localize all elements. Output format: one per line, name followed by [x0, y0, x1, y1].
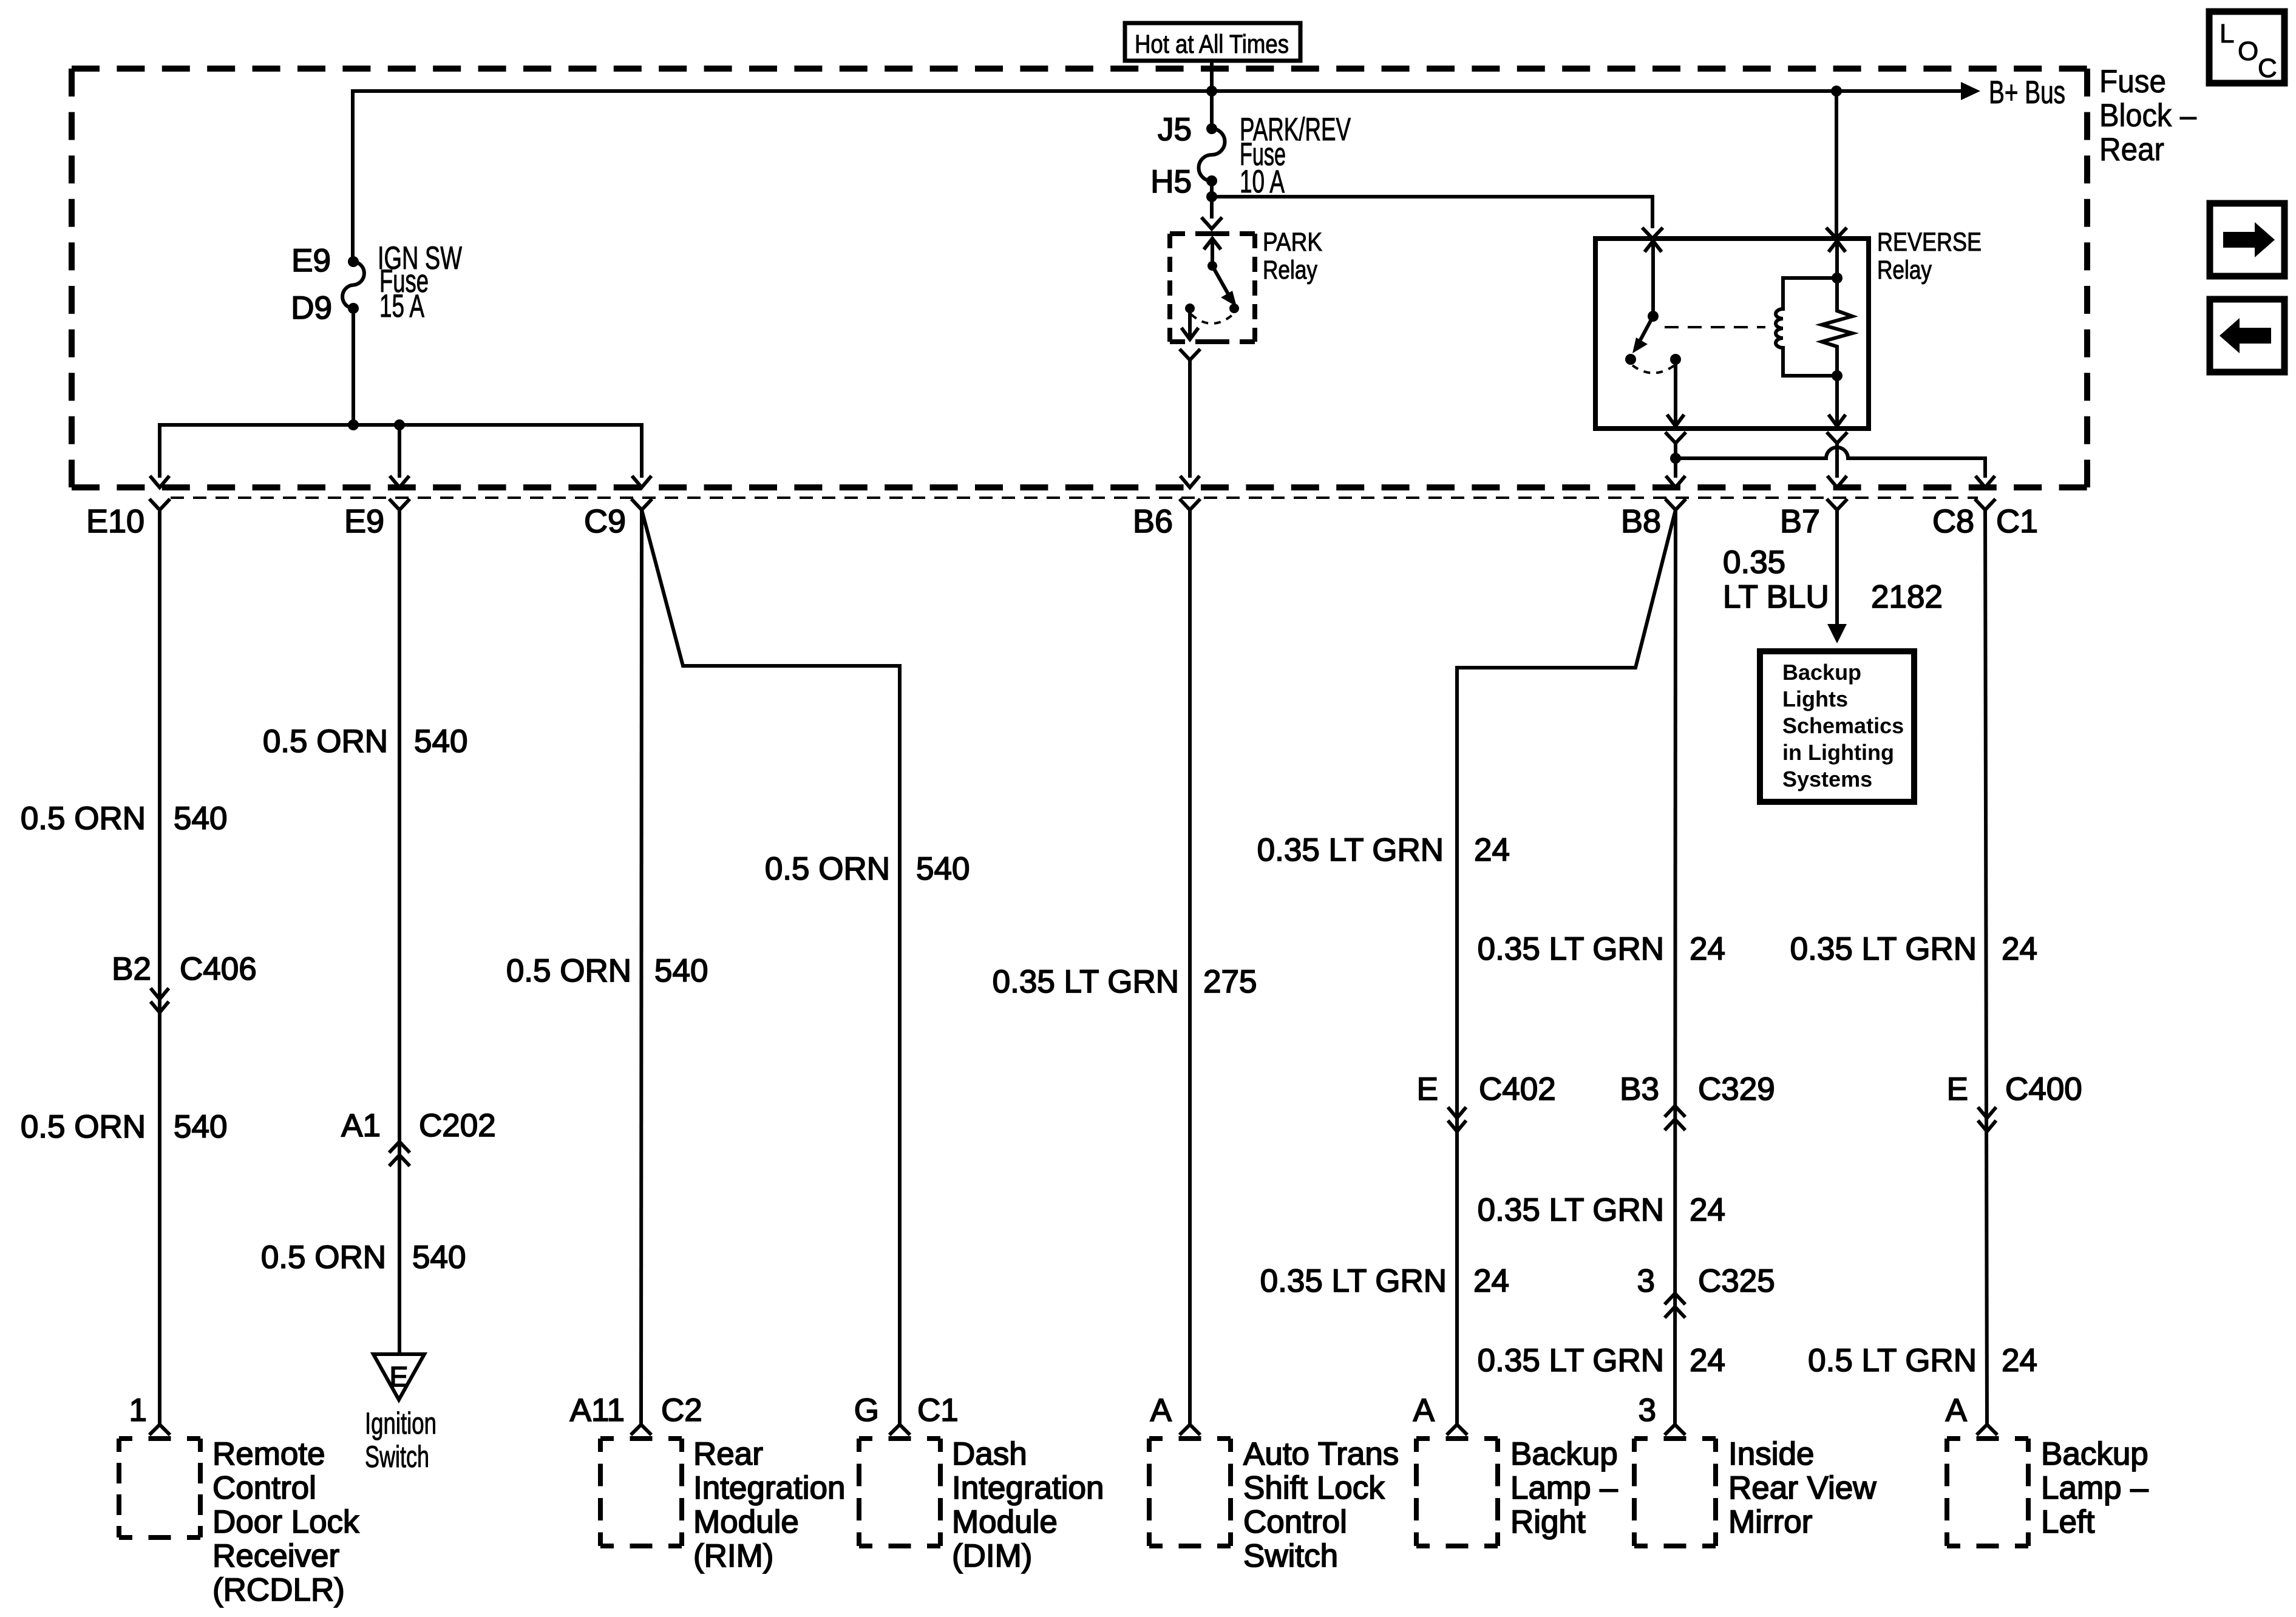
svg-text:0.5 ORN: 0.5 ORN: [21, 801, 146, 836]
svg-text:24: 24: [1690, 1343, 1725, 1378]
svg-text:540: 540: [916, 851, 970, 887]
connector chevron row E10: [149, 499, 170, 510]
node B+ Bus arrow: [1961, 75, 2065, 110]
relay PARK (dashed box): [1170, 231, 1255, 236]
svg-text:C400: C400: [2005, 1071, 2082, 1107]
svg-text:10 A: 10 A: [1240, 164, 1285, 200]
wire bus to PARK/REV fuse: [1210, 91, 1214, 129]
wire IGN SW fuse to lower bus: [352, 308, 355, 427]
svg-text:O: O: [2238, 36, 2258, 66]
svg-text:C9: C9: [584, 503, 626, 540]
svg-text:0.5 ORN: 0.5 ORN: [21, 1109, 146, 1145]
svg-text:3: 3: [1639, 1392, 1656, 1428]
svg-text:A1: A1: [341, 1108, 381, 1144]
svg-text:C325: C325: [1698, 1263, 1775, 1299]
svg-text:Rear: Rear: [2099, 132, 2164, 168]
junction dot fuse output: [1206, 191, 1217, 202]
svg-text:C329: C329: [1698, 1071, 1775, 1107]
relay REVERSE (solid box): [1595, 239, 1869, 429]
wire B8 branch to backup lamp right: [1457, 510, 1676, 1425]
connector chevron row C8/C1: [1975, 499, 1995, 510]
svg-text:Switch: Switch: [365, 1440, 429, 1474]
connector chevron below REVERSE relay left: [1665, 432, 1686, 443]
wire B7 drop: [1835, 443, 1839, 478]
connector chevron into REVERSE relay right: [1826, 228, 1847, 239]
wire REVERSE relay feed from bus: [1835, 91, 1838, 239]
svg-text:PARK: PARK: [1263, 228, 1322, 257]
svg-text:REVERSE: REVERSE: [1877, 228, 1982, 257]
svg-text:0.5 ORN: 0.5 ORN: [506, 953, 631, 989]
wire jumper to C8 with hop over B7: [1676, 447, 1985, 478]
wire lower distribution bus: [160, 425, 642, 427]
connector caret into mirror: [1665, 1425, 1685, 1435]
REVERSE relay coil return wire with down arrow: [1835, 376, 1839, 427]
svg-text:A: A: [1946, 1392, 1968, 1428]
svg-text:275: 275: [1203, 964, 1257, 1000]
wire from Hot at All Times to B+ bus: [1210, 61, 1214, 91]
svg-text:E9: E9: [344, 503, 384, 540]
border arrow C9: [632, 476, 651, 487]
connector chevron below PARK relay: [1180, 349, 1200, 360]
svg-text:1: 1: [129, 1392, 147, 1428]
svg-text:0.5 ORN: 0.5 ORN: [263, 724, 388, 759]
svg-text:24: 24: [1474, 832, 1510, 868]
svg-text:E9: E9: [291, 243, 331, 279]
wire B8 to inside rear view mirror: [1675, 510, 1676, 1425]
svg-text:B+ Bus: B+ Bus: [1989, 75, 2065, 110]
svg-text:540: 540: [414, 724, 467, 759]
svg-text:A11: A11: [570, 1392, 625, 1428]
connector caret into RCDLR: [149, 1425, 170, 1435]
svg-text:C402: C402: [1479, 1071, 1556, 1107]
svg-text:E: E: [1417, 1071, 1438, 1107]
component Backup Lamp Right (dashed box): [1416, 1436, 1498, 1441]
resistor of REVERSE relay: [1822, 278, 1852, 376]
node right arrow legend box: [2210, 203, 2284, 276]
coil of REVERSE relay: [1776, 278, 1837, 376]
component Backup Lamp Left (dashed box): [1947, 1436, 2028, 1441]
connector chevron row B8: [1665, 499, 1686, 510]
connector caret into backup lamp left: [1977, 1425, 1997, 1435]
svg-text:G: G: [854, 1392, 879, 1428]
connector chevron row B6: [1180, 499, 1200, 510]
connector chevron row B7: [1827, 499, 1847, 510]
PARK relay output wire with down arrow: [1188, 308, 1192, 340]
svg-text:540: 540: [174, 801, 227, 836]
fuse block dashed border: [72, 66, 2087, 72]
svg-text:0.35 LT GRN: 0.35 LT GRN: [1478, 931, 1664, 967]
connector chevron row E9: [389, 499, 410, 510]
svg-text:0.35 LT GRN: 0.35 LT GRN: [993, 964, 1179, 1000]
svg-text:15 A: 15 A: [379, 288, 424, 324]
svg-text:E: E: [390, 1361, 409, 1392]
svg-text:540: 540: [654, 953, 708, 989]
svg-text:C202: C202: [419, 1108, 496, 1144]
junction dot B8: [1670, 453, 1681, 464]
connector chevron into PARK relay: [1201, 217, 1222, 229]
connector chevron row C9: [631, 499, 652, 510]
connector row thin dashed line: [171, 497, 1978, 499]
connector caret into shift lock switch: [1180, 1425, 1200, 1435]
wire B6 to shift lock switch: [1188, 510, 1192, 1425]
svg-text:24: 24: [1690, 931, 1725, 967]
svg-text:J5: J5: [1158, 112, 1192, 147]
svg-text:3: 3: [1637, 1263, 1655, 1299]
svg-text:2182: 2182: [1871, 579, 1943, 615]
component Auto Trans Shift Lock Control Switch (dashed box): [1149, 1436, 1231, 1441]
component Dash Integration Module (dashed box): [859, 1436, 940, 1441]
wire C9 branch to DIM: [642, 510, 900, 1425]
svg-text:0.5 ORN: 0.5 ORN: [765, 851, 890, 887]
svg-text:A: A: [1413, 1392, 1435, 1428]
fuse PARK/REV 10A: [1199, 123, 1225, 186]
svg-text:C406: C406: [180, 951, 257, 987]
PARK relay switch arm: [1212, 266, 1229, 295]
border arrow E9: [390, 476, 409, 487]
wire C8/C1 to backup lamp left: [1985, 510, 1987, 1425]
svg-text:C1: C1: [917, 1392, 959, 1428]
svg-text:B8: B8: [1621, 503, 1661, 540]
REVERSE relay output wire with down arrow: [1674, 359, 1677, 427]
svg-text:24: 24: [2002, 1343, 2037, 1378]
border arrow E10: [150, 476, 169, 487]
svg-text:Hot at All Times: Hot at All Times: [1135, 30, 1289, 59]
svg-text:C1: C1: [1996, 503, 2038, 540]
svg-text:0.35 LT GRN: 0.35 LT GRN: [1478, 1343, 1664, 1378]
border arrow B6: [1180, 476, 1200, 487]
node left arrow legend box: [2210, 299, 2284, 372]
wire B+ bus horizontal: [353, 89, 1963, 93]
svg-text:0.35 LT GRN: 0.35 LT GRN: [1260, 1263, 1447, 1299]
REVERSE relay switch arm: [1640, 316, 1653, 340]
REVERSE relay coil feed with up arrow: [1835, 240, 1839, 278]
svg-text:E10: E10: [86, 503, 144, 540]
svg-text:H5: H5: [1150, 164, 1192, 200]
svg-text:A: A: [1150, 1392, 1172, 1428]
wire bus to IGN SW fuse: [351, 89, 355, 262]
svg-text:0.35 LT GRN: 0.35 LT GRN: [1790, 931, 1977, 967]
node LOC legend box: [2209, 12, 2284, 83]
component Inside Rear View Mirror (dashed box): [1634, 1436, 1716, 1441]
wire B8 drop: [1674, 443, 1677, 478]
PARK relay switch common with up arrow: [1211, 237, 1214, 266]
component Remote Control Door Lock Receiver (dashed box): [119, 1436, 200, 1441]
svg-text:B7: B7: [1780, 503, 1820, 540]
connector caret into RIM: [631, 1425, 651, 1435]
junction dot E9 branch: [394, 419, 405, 430]
node Backup Lights Schematics reference box: [1760, 651, 1914, 802]
svg-text:B6: B6: [1133, 503, 1173, 540]
fuse IGN SW 15A: [342, 256, 364, 314]
svg-text:0.35 LT GRN: 0.35 LT GRN: [1478, 1192, 1664, 1228]
REVERSE relay contact left: [1625, 354, 1636, 365]
svg-text:E: E: [1947, 1071, 1968, 1107]
svg-text:540: 540: [412, 1239, 466, 1275]
REVERSE relay dashed actuation link: [1665, 326, 1765, 328]
svg-text:0.5 ORN: 0.5 ORN: [261, 1239, 386, 1275]
connector chevron into REVERSE relay left: [1642, 228, 1663, 239]
svg-text:B3: B3: [1620, 1071, 1659, 1107]
REVERSE relay contact right: [1670, 354, 1681, 365]
REVERSE relay dashed throw arc: [1632, 365, 1674, 373]
svg-text:24: 24: [2002, 931, 2037, 967]
wire PARK/REV fuse output: [1210, 181, 1214, 219]
border arrow C8: [1975, 476, 1995, 487]
svg-text:0.35 LT GRN: 0.35 LT GRN: [1257, 832, 1444, 868]
connector caret into DIM: [889, 1425, 910, 1435]
svg-text:C: C: [2258, 53, 2277, 83]
svg-text:0.5 LT GRN: 0.5 LT GRN: [1808, 1343, 1977, 1378]
svg-text:B2: B2: [112, 951, 151, 987]
junction dot fuse to bus: [348, 419, 359, 430]
svg-text:C8: C8: [1932, 503, 1974, 540]
border arrow B7: [1827, 476, 1847, 487]
svg-text:540: 540: [174, 1109, 227, 1145]
svg-text:D9: D9: [291, 290, 332, 326]
svg-text:Relay: Relay: [1877, 256, 1932, 285]
PARK relay contact left: [1185, 303, 1195, 313]
svg-text:C2: C2: [661, 1392, 702, 1428]
svg-text:Fuse: Fuse: [2099, 64, 2166, 100]
border arrow B8: [1666, 476, 1685, 487]
svg-text:24: 24: [1690, 1192, 1725, 1228]
wire fuse output to REVERSE relay: [1212, 197, 1652, 228]
svg-text:Ignition: Ignition: [365, 1406, 436, 1440]
junction dot PARK/REV fuse: [1206, 86, 1217, 97]
junction dot REVERSE relay feed: [1831, 86, 1842, 97]
svg-text:Relay: Relay: [1263, 256, 1317, 285]
wire C9 to RIM: [641, 510, 642, 1425]
node Hot at All Times: [1125, 23, 1300, 61]
svg-text:24: 24: [1473, 1263, 1509, 1299]
component Rear Integration Module (dashed box): [600, 1436, 682, 1441]
connector caret into backup lamp right: [1447, 1425, 1467, 1435]
wire B7 to backup lights schematic reference: [1835, 510, 1839, 628]
wire PARK relay to B6: [1188, 360, 1192, 478]
svg-text:L: L: [2220, 19, 2234, 49]
svg-text:Block –: Block –: [2099, 98, 2196, 134]
PARK relay contact right: [1229, 303, 1239, 313]
connector chevron below REVERSE relay right: [1827, 432, 1847, 443]
wire E9 to ignition switch: [398, 510, 401, 1354]
node E ignition switch triangle: [373, 1354, 424, 1400]
REVERSE relay switch common with up arrow: [1651, 240, 1655, 316]
PARK relay dashed throw arc: [1191, 314, 1233, 324]
wire E10 to RCDLR: [158, 510, 161, 1425]
